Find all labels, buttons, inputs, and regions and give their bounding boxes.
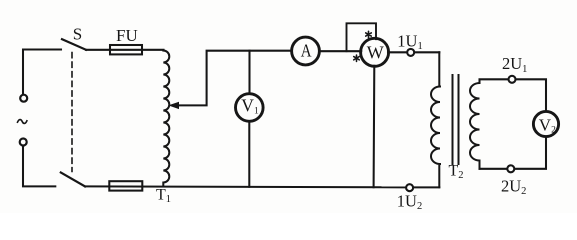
svg-text:W: W [367, 42, 384, 62]
svg-text:S: S [73, 24, 82, 43]
svg-text:A: A [301, 41, 312, 61]
svg-text:FU: FU [116, 26, 138, 45]
